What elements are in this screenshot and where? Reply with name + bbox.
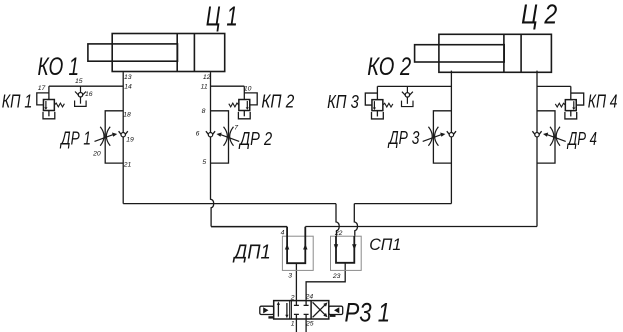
svg-text:12: 12 (203, 74, 211, 81)
svg-text:20: 20 (92, 151, 101, 158)
svg-text:КО 1: КО 1 (38, 53, 80, 81)
svg-text:8: 8 (202, 108, 206, 115)
svg-text:КО 2: КО 2 (367, 53, 411, 81)
svg-text:11: 11 (201, 84, 208, 91)
svg-text:2: 2 (290, 294, 295, 301)
svg-text:15: 15 (75, 78, 83, 85)
svg-text:13: 13 (124, 74, 132, 81)
svg-text:22: 22 (334, 230, 343, 237)
svg-text:24: 24 (305, 293, 314, 300)
svg-text:ДР 2: ДР 2 (238, 128, 272, 149)
svg-text:4: 4 (281, 230, 285, 237)
svg-text:10: 10 (244, 86, 252, 93)
svg-text:5: 5 (202, 159, 206, 166)
svg-text:16: 16 (85, 91, 93, 98)
svg-text:ДР 1: ДР 1 (60, 128, 91, 149)
svg-text:21: 21 (123, 162, 132, 169)
svg-text:ДП1: ДП1 (232, 242, 270, 264)
svg-text:18: 18 (123, 112, 131, 119)
svg-text:КП 2: КП 2 (261, 91, 294, 112)
svg-text:7: 7 (234, 125, 238, 132)
svg-text:3: 3 (288, 273, 292, 280)
svg-text:Р3 1: Р3 1 (345, 298, 391, 328)
svg-text:23: 23 (332, 273, 341, 280)
svg-text:14: 14 (124, 84, 132, 91)
svg-text:1: 1 (291, 320, 295, 327)
svg-text:ДР 3: ДР 3 (387, 127, 420, 148)
svg-text:6: 6 (196, 131, 200, 138)
svg-text:Ц 1: Ц 1 (206, 1, 238, 32)
svg-text:25: 25 (305, 320, 314, 327)
svg-text:КП 3: КП 3 (327, 91, 359, 112)
svg-text:КП 4: КП 4 (588, 90, 618, 111)
svg-text:ДР 4: ДР 4 (567, 128, 597, 149)
svg-text:17: 17 (38, 85, 46, 92)
svg-text:Ц 2: Ц 2 (521, 0, 557, 30)
svg-text:19: 19 (126, 137, 134, 144)
svg-text:КП 1: КП 1 (2, 90, 33, 111)
svg-text:СП1: СП1 (369, 235, 401, 254)
